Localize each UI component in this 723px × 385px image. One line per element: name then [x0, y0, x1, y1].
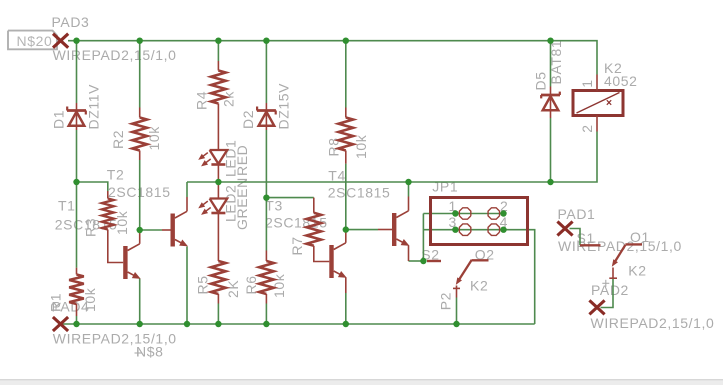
svg-text:2K: 2K: [225, 280, 241, 298]
svg-text:T2: T2: [107, 167, 125, 183]
svg-text:2SC1815: 2SC1815: [328, 185, 391, 201]
svg-text:N$8: N$8: [136, 343, 163, 359]
svg-text:R1: R1: [48, 293, 64, 312]
svg-text:PAD3: PAD3: [52, 14, 90, 30]
svg-text:10k: 10k: [353, 134, 369, 159]
svg-text:10k: 10k: [114, 210, 130, 235]
svg-text:2: 2: [579, 124, 595, 132]
svg-text:GREEN: GREEN: [234, 177, 250, 230]
svg-text:R2: R2: [110, 130, 126, 149]
svg-text:D1: D1: [50, 110, 66, 129]
svg-text:O1: O1: [630, 229, 650, 245]
svg-text:K2: K2: [628, 263, 646, 279]
svg-text:DZ11V: DZ11V: [86, 84, 102, 130]
svg-text:10k: 10k: [146, 126, 162, 151]
svg-text:10k: 10k: [82, 287, 98, 312]
svg-text:R7: R7: [289, 236, 305, 255]
svg-text:K2: K2: [470, 278, 488, 294]
svg-text:PAD2: PAD2: [591, 282, 629, 298]
svg-text:T4: T4: [328, 167, 346, 183]
svg-text:P2: P2: [438, 292, 454, 310]
svg-text:JP1: JP1: [432, 179, 458, 195]
svg-text:1: 1: [579, 79, 595, 87]
svg-text:D2: D2: [240, 110, 256, 129]
svg-text:N$20: N$20: [17, 33, 53, 49]
svg-text:D5: D5: [533, 71, 549, 90]
svg-text:RED: RED: [234, 145, 250, 176]
svg-text:4052: 4052: [604, 73, 638, 89]
svg-text:T1: T1: [58, 197, 76, 213]
svg-text:PAD1: PAD1: [558, 206, 596, 222]
svg-text:10k: 10k: [271, 273, 287, 298]
svg-text:R3: R3: [83, 218, 99, 237]
svg-text:WIREPAD2,15/1,0: WIREPAD2,15/1,0: [591, 315, 715, 331]
svg-text:WIREPAD2,15/1,0: WIREPAD2,15/1,0: [53, 47, 177, 63]
svg-text:DZ15V: DZ15V: [276, 83, 292, 130]
svg-text:R4: R4: [194, 91, 210, 110]
